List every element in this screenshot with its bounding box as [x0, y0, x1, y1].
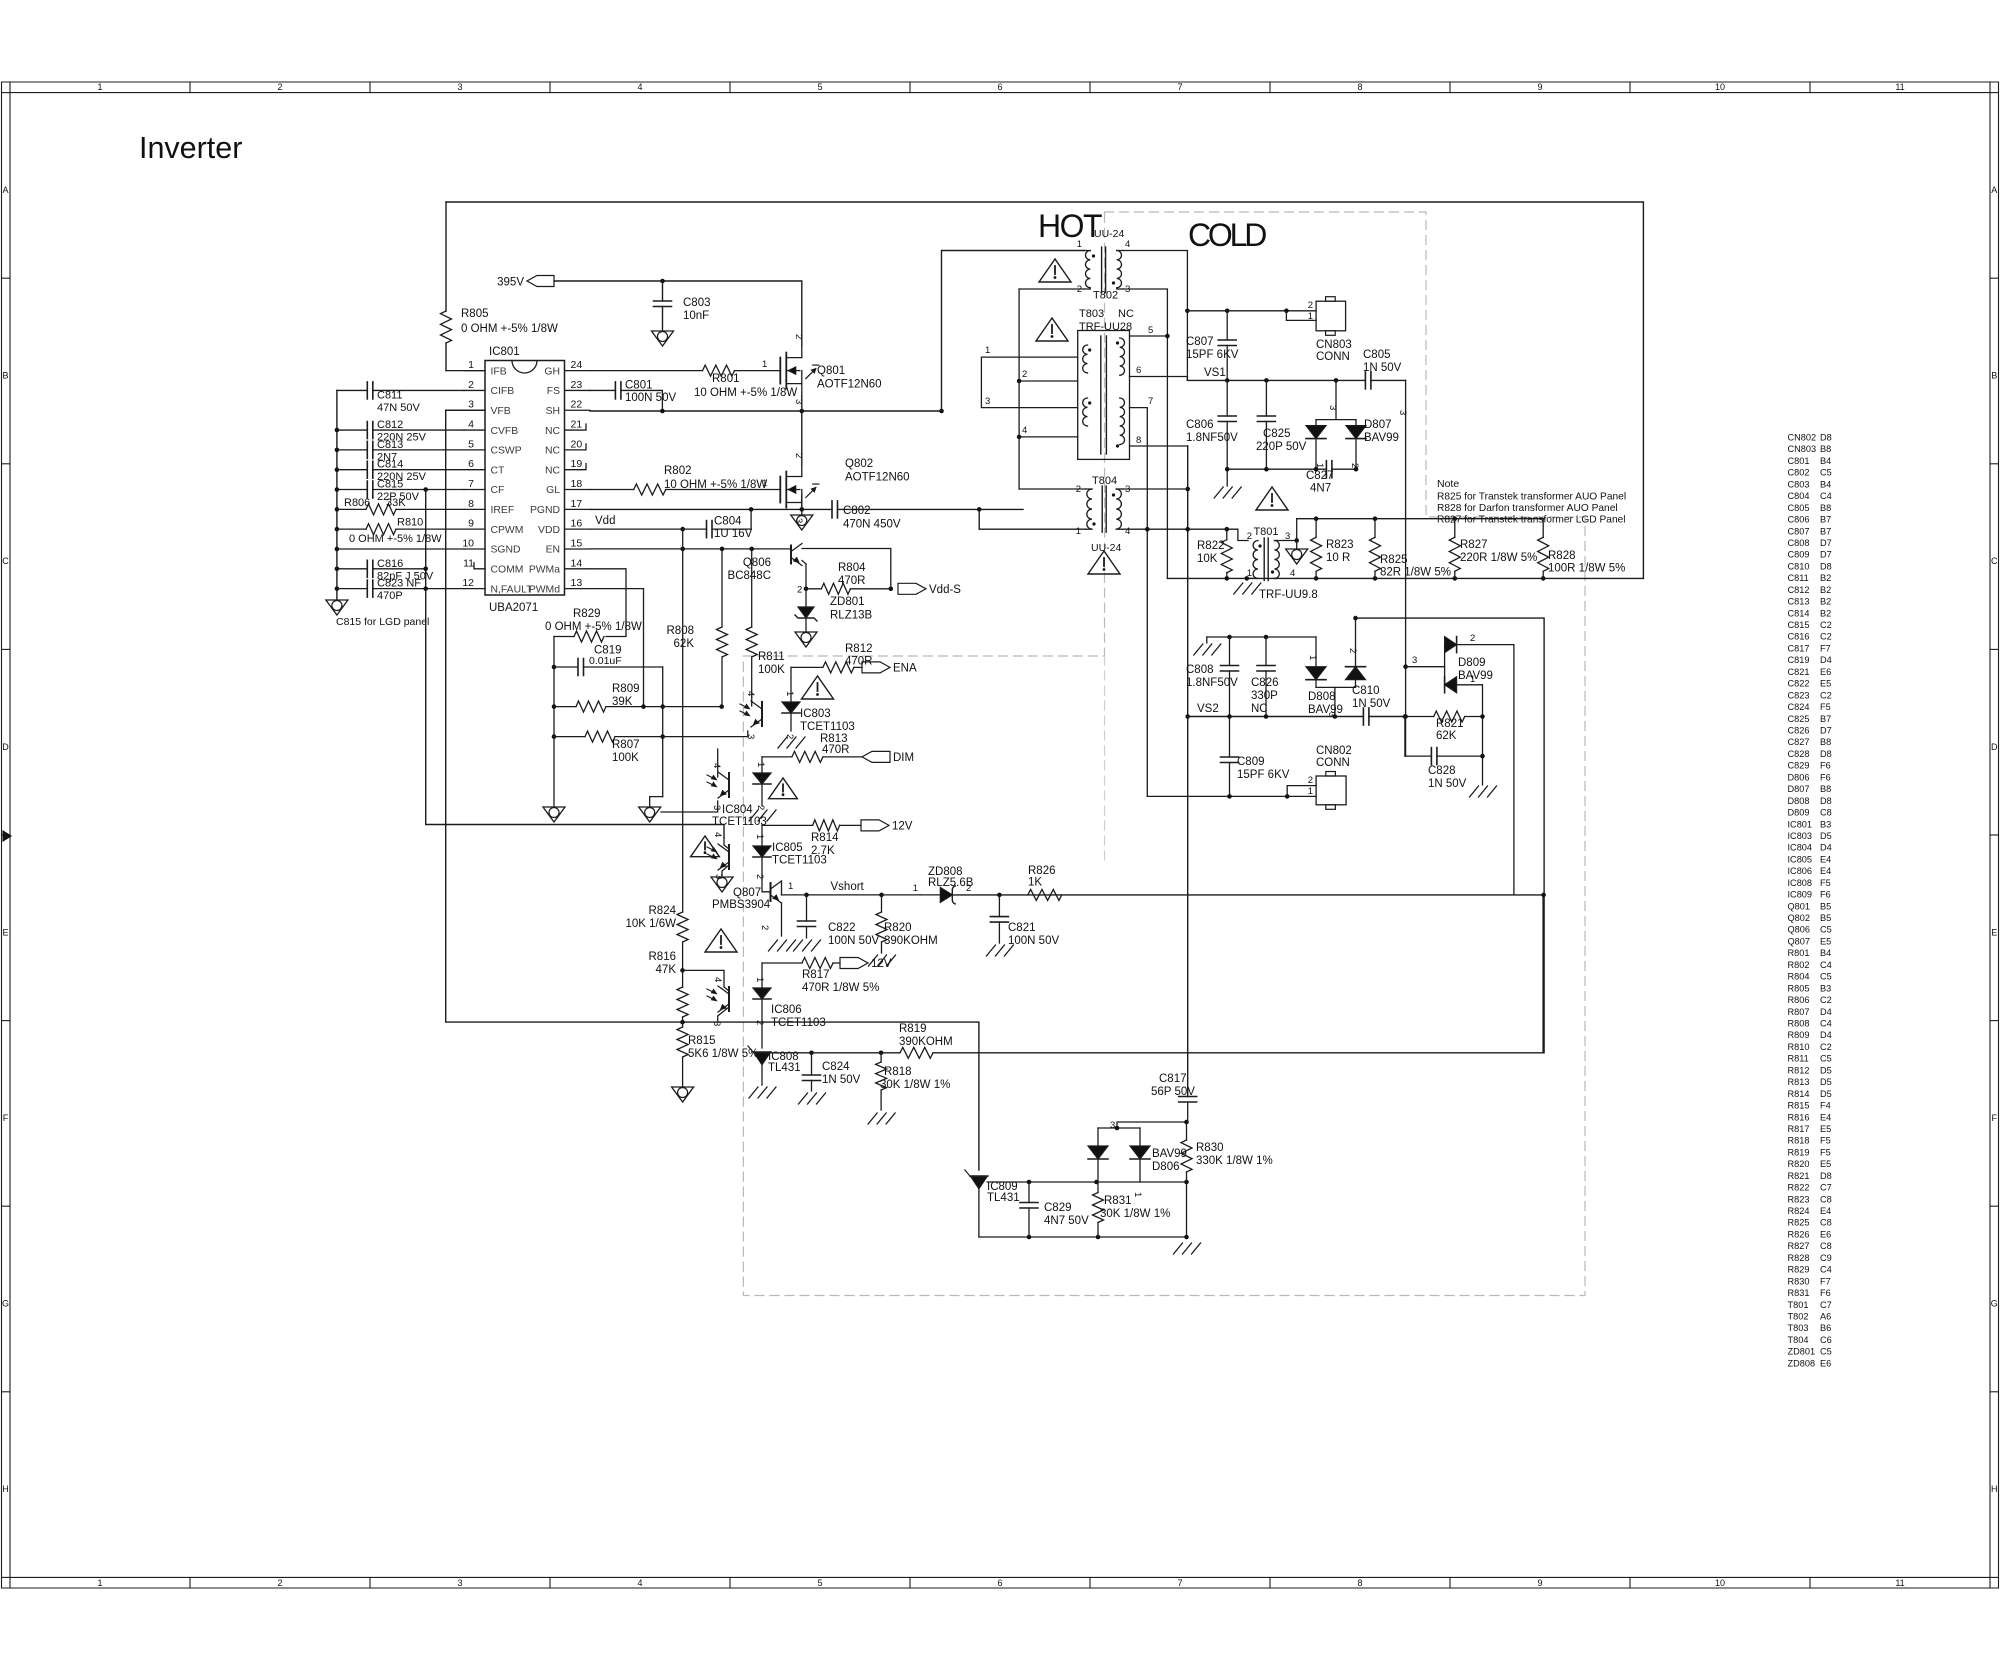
svg-text:4: 4 — [1125, 239, 1130, 250]
svg-text:COLD: COLD — [1188, 217, 1266, 253]
svg-text:C810: C810 — [1352, 685, 1380, 697]
svg-text:C5: C5 — [1820, 468, 1832, 478]
ground R820 — [869, 955, 878, 966]
capacitor C819 — [554, 666, 578, 668]
svg-text:C823: C823 — [1788, 690, 1810, 700]
ground at Q802 source — [791, 515, 813, 530]
wire resistor bank bottom rail — [1167, 577, 1643, 579]
svg-text:D808: D808 — [1308, 691, 1336, 703]
wire R829/C819/R809/R807 common — [553, 637, 555, 807]
svg-text:C7: C7 — [1820, 1300, 1832, 1310]
svg-text:2: 2 — [793, 334, 804, 339]
svg-text:1: 1 — [985, 345, 990, 356]
wire IC809 bottom line — [979, 1236, 1187, 1238]
optocoupler IC805 — [728, 845, 730, 869]
svg-text:C827: C827 — [1788, 737, 1810, 747]
svg-text:330P: 330P — [1251, 690, 1278, 702]
wire Vshort node with zener ZD808 — [782, 894, 921, 896]
svg-text:R812: R812 — [845, 643, 873, 655]
svg-text:22: 22 — [571, 399, 583, 411]
svg-text:4: 4 — [1022, 425, 1027, 436]
svg-text:D5: D5 — [1820, 1077, 1832, 1087]
svg-text:G: G — [2, 1299, 9, 1309]
transistor Q807 driver Q806 — [790, 546, 792, 564]
svg-text:R828: R828 — [1548, 550, 1576, 562]
svg-text:390KOHM: 390KOHM — [884, 935, 938, 947]
svg-text:F: F — [3, 1113, 9, 1123]
svg-text:1: 1 — [1076, 526, 1081, 537]
svg-text:470R: 470R — [845, 656, 873, 668]
svg-text:NC: NC — [1251, 703, 1268, 715]
svg-text:C813: C813 — [377, 439, 403, 451]
svg-text:470R: 470R — [822, 744, 850, 756]
warning triangle near IC803 — [802, 676, 834, 699]
svg-text:11: 11 — [463, 557, 474, 569]
capacitor C803 — [662, 281, 664, 301]
op-amp U1 controller IC801 UBA2071 box and pins — [485, 361, 565, 596]
svg-text:C8: C8 — [1820, 1194, 1832, 1204]
svg-text:R801: R801 — [1788, 948, 1810, 958]
svg-text:14: 14 — [571, 557, 583, 569]
svg-text:C824: C824 — [822, 1061, 850, 1073]
capacitor C817 — [1179, 1096, 1197, 1098]
svg-text:CT: CT — [491, 465, 506, 476]
svg-text:1N 50V: 1N 50V — [1352, 698, 1391, 710]
svg-text:B8: B8 — [1820, 503, 1831, 513]
svg-text:7: 7 — [1177, 1578, 1182, 1588]
svg-text:220P 50V: 220P 50V — [1256, 441, 1307, 453]
svg-text:1: 1 — [1470, 674, 1475, 685]
svg-text:VFB: VFB — [491, 406, 511, 417]
ground at bottom of capacitor bus — [326, 600, 348, 615]
wire T801 pin3 node — [1296, 519, 1298, 541]
svg-text:1.8NF50V: 1.8NF50V — [1186, 677, 1238, 689]
svg-text:0 OHM +-5% 1/8W: 0 OHM +-5% 1/8W — [349, 533, 442, 545]
wire PWMd vertical — [590, 589, 644, 707]
svg-text:C816: C816 — [1788, 632, 1810, 642]
svg-text:IC808: IC808 — [1788, 878, 1813, 888]
resistor R826 — [1028, 889, 1062, 900]
svg-text:10 R: 10 R — [1326, 552, 1350, 564]
svg-text:C813: C813 — [1788, 597, 1810, 607]
svg-text:D806: D806 — [1152, 1161, 1180, 1173]
warning triangle near IC805 — [691, 836, 720, 857]
svg-text:B2: B2 — [1820, 597, 1831, 607]
svg-text:10 OHM +-5% 1/8W: 10 OHM +-5% 1/8W — [694, 387, 797, 399]
svg-text:R829: R829 — [1788, 1265, 1810, 1275]
svg-text:IC803: IC803 — [800, 708, 831, 720]
svg-text:TRF-UU9.8: TRF-UU9.8 — [1259, 589, 1318, 601]
optocoupler IC803 — [761, 702, 763, 726]
svg-text:COMM: COMM — [491, 565, 524, 576]
svg-text:D4: D4 — [1820, 1007, 1832, 1017]
resistor R813 and DIM flag — [762, 756, 792, 758]
wire feedback line with R819 — [762, 1052, 900, 1054]
svg-text:9: 9 — [468, 518, 474, 530]
svg-text:R804: R804 — [1788, 972, 1810, 982]
svg-text:3: 3 — [1412, 655, 1417, 666]
resistor R809 — [554, 706, 576, 708]
capacitor C828 — [1404, 717, 1406, 757]
svg-text:C810: C810 — [1788, 561, 1810, 571]
svg-text:390KOHM: 390KOHM — [899, 1036, 953, 1048]
resistor R818 — [880, 1053, 882, 1062]
transformer T802 — [1084, 250, 1090, 252]
svg-text:2: 2 — [1349, 463, 1360, 468]
svg-text:1: 1 — [755, 762, 766, 767]
svg-text:R831: R831 — [1104, 1195, 1132, 1207]
wire T802/T804 pin2 vertical — [1018, 289, 1020, 489]
svg-text:56P 50V: 56P 50V — [1151, 1086, 1195, 1098]
svg-text:B2: B2 — [1820, 608, 1831, 618]
wire C808 top line — [1207, 636, 1316, 638]
svg-text:R831: R831 — [1788, 1288, 1810, 1298]
resistor R811 — [751, 549, 753, 627]
svg-text:GH: GH — [544, 366, 560, 377]
svg-text:ZD801: ZD801 — [1788, 1347, 1816, 1357]
svg-text:E6: E6 — [1820, 667, 1831, 677]
svg-text:R808: R808 — [1788, 1019, 1810, 1029]
svg-text:5: 5 — [1148, 325, 1153, 336]
svg-text:F7: F7 — [1820, 1276, 1831, 1286]
resistor R804 — [806, 588, 821, 590]
capacitor C809 — [1229, 717, 1231, 758]
svg-text:3: 3 — [1285, 531, 1290, 542]
svg-text:17: 17 — [571, 498, 583, 510]
svg-text:D7: D7 — [1820, 550, 1832, 560]
svg-text:AOTF12N60: AOTF12N60 — [817, 379, 882, 391]
svg-text:D5: D5 — [1820, 831, 1832, 841]
capacitor C805 — [1364, 372, 1366, 389]
svg-text:NC: NC — [545, 465, 561, 476]
svg-text:C807: C807 — [1788, 526, 1810, 536]
svg-text:PGND: PGND — [530, 505, 560, 516]
wire PWMa — [590, 569, 626, 637]
svg-text:2: 2 — [966, 883, 971, 894]
svg-text:C: C — [1991, 556, 1998, 566]
capacitor C806 — [1226, 380, 1228, 416]
svg-text:TRF-UU28: TRF-UU28 — [1079, 321, 1132, 333]
svg-text:CONN: CONN — [1316, 351, 1350, 363]
svg-text:1: 1 — [754, 977, 765, 982]
svg-text:30K 1/8W 1%: 30K 1/8W 1% — [880, 1079, 950, 1091]
wire left edge into R805 — [445, 202, 447, 311]
svg-text:F4: F4 — [1820, 1101, 1831, 1111]
svg-text:62K: 62K — [674, 638, 695, 650]
svg-text:BAV99: BAV99 — [1458, 670, 1493, 682]
svg-text:BC848C: BC848C — [728, 570, 771, 582]
svg-text:B4: B4 — [1820, 456, 1831, 466]
resistor R817 and second 12V flag — [762, 962, 802, 964]
svg-text:B: B — [1991, 371, 1997, 381]
svg-text:C815 for LGD panel: C815 for LGD panel — [336, 616, 429, 628]
ground below ZD801 — [795, 632, 817, 647]
svg-text:Q801: Q801 — [817, 365, 845, 377]
capacitor C822 — [806, 895, 808, 921]
resistor R810 — [337, 528, 366, 530]
svg-text:F5: F5 — [1820, 702, 1831, 712]
svg-text:UU-24: UU-24 — [1091, 542, 1122, 554]
svg-text:CVFB: CVFB — [491, 426, 519, 437]
resistor R808 — [721, 549, 723, 627]
svg-text:VDD: VDD — [538, 525, 560, 536]
svg-text:24: 24 — [571, 359, 583, 371]
svg-text:1: 1 — [1077, 239, 1082, 250]
wire VFB feedback vertical down to IC806 row — [446, 410, 979, 1170]
svg-text:CF: CF — [491, 485, 505, 496]
svg-text:GL: GL — [546, 485, 560, 496]
wire SH half-bridge node — [590, 410, 942, 412]
wire CN803 feed — [1187, 310, 1316, 312]
capacitor C821 — [998, 895, 1000, 917]
resistor R831 — [1097, 1182, 1099, 1193]
svg-text:E5: E5 — [1820, 679, 1831, 689]
svg-text:B3: B3 — [1820, 983, 1831, 993]
svg-text:10: 10 — [462, 537, 474, 549]
svg-text:4N7: 4N7 — [1310, 483, 1331, 495]
svg-text:1: 1 — [97, 82, 102, 92]
svg-text:C4: C4 — [1820, 491, 1832, 501]
svg-text:R816: R816 — [1788, 1112, 1810, 1122]
svg-text:C5: C5 — [1820, 972, 1832, 982]
svg-text:B3: B3 — [1820, 819, 1831, 829]
svg-text:D806: D806 — [1788, 772, 1810, 782]
svg-text:1: 1 — [1308, 311, 1313, 322]
capacitor C804 — [706, 521, 708, 538]
wire C805 chain vertical — [1405, 380, 1407, 756]
svg-text:C805: C805 — [1788, 503, 1810, 513]
svg-text:5: 5 — [817, 82, 822, 92]
wire long secondary vertical — [1130, 445, 1188, 447]
svg-text:D5: D5 — [1820, 1089, 1832, 1099]
svg-text:2: 2 — [754, 1020, 765, 1025]
capacitor C827 — [1227, 468, 1326, 470]
svg-text:D5: D5 — [1820, 1065, 1832, 1075]
svg-text:R815: R815 — [688, 1035, 716, 1047]
svg-text:PMBS3904: PMBS3904 — [712, 899, 771, 911]
svg-text:SH: SH — [546, 406, 560, 417]
svg-text:C823 NF: C823 NF — [377, 578, 421, 590]
svg-text:C822: C822 — [1788, 679, 1810, 689]
svg-text:D807: D807 — [1788, 784, 1810, 794]
svg-text:2: 2 — [793, 453, 804, 458]
shunt regulator IC809 TL431 — [970, 1175, 988, 1177]
wire T801 primary feed — [1227, 529, 1248, 540]
svg-text:B8: B8 — [1820, 737, 1831, 747]
svg-text:R819: R819 — [1788, 1147, 1810, 1157]
svg-text:F6: F6 — [1820, 1288, 1831, 1298]
svg-text:Q801: Q801 — [1788, 901, 1810, 911]
svg-text:4: 4 — [712, 977, 723, 982]
wire left capacitor bus — [336, 390, 338, 599]
svg-text:C8: C8 — [1820, 1241, 1832, 1251]
svg-text:R811: R811 — [758, 651, 785, 663]
svg-text:C2: C2 — [1820, 995, 1832, 1005]
ground IC803 LED — [778, 737, 787, 748]
ground C824 — [799, 1093, 808, 1104]
warning triangle above T801 — [1256, 487, 1288, 510]
svg-text:3: 3 — [457, 82, 462, 92]
svg-text:6: 6 — [997, 82, 1002, 92]
svg-text:C805: C805 — [1363, 349, 1391, 361]
svg-text:C5: C5 — [1820, 1054, 1832, 1064]
svg-text:15: 15 — [571, 537, 583, 549]
svg-text:R807: R807 — [1788, 1007, 1810, 1017]
svg-text:C824: C824 — [1788, 702, 1810, 712]
svg-text:R826: R826 — [1788, 1229, 1810, 1239]
svg-text:100N 50V: 100N 50V — [1008, 935, 1059, 947]
svg-text:D807: D807 — [1364, 419, 1392, 431]
dashed hot/cold isolation barrier — [743, 212, 1585, 1296]
svg-text:IC801: IC801 — [1788, 819, 1813, 829]
svg-text:D8: D8 — [1820, 433, 1832, 443]
svg-text:E4: E4 — [1820, 866, 1831, 876]
svg-text:4: 4 — [745, 691, 756, 696]
svg-text:IFB: IFB — [491, 366, 507, 377]
wire VDD — [590, 528, 707, 530]
svg-text:F5: F5 — [1820, 1147, 1831, 1157]
svg-text:C5: C5 — [1820, 925, 1832, 935]
wire GL gate drive — [590, 489, 634, 491]
svg-text:D809: D809 — [1788, 808, 1810, 818]
svg-text:IC801: IC801 — [489, 346, 520, 358]
svg-text:3: 3 — [711, 1021, 722, 1026]
svg-text:C821: C821 — [1008, 922, 1036, 934]
svg-text:100K: 100K — [758, 664, 785, 676]
svg-text:5: 5 — [468, 438, 474, 450]
svg-text:B8: B8 — [1820, 444, 1831, 454]
svg-text:82R 1/8W 5%: 82R 1/8W 5% — [1380, 567, 1451, 579]
svg-text:E: E — [2, 927, 8, 937]
svg-text:H: H — [1991, 1484, 1998, 1494]
svg-text:C828: C828 — [1788, 749, 1810, 759]
svg-text:NC: NC — [545, 446, 561, 457]
svg-text:R825 for Transtek transformer: R825 for Transtek transformer AUO Panel — [1437, 492, 1626, 503]
svg-text:E4: E4 — [1820, 854, 1831, 864]
capacitor C826 — [1265, 637, 1267, 666]
svg-text:Q807: Q807 — [1788, 936, 1810, 946]
transformer T804 — [1086, 488, 1092, 490]
wire PGND power ground rail — [590, 508, 832, 510]
svg-text:Q802: Q802 — [845, 458, 873, 470]
svg-text:F: F — [1991, 1113, 1997, 1123]
warning triangle below T804 — [1088, 551, 1120, 574]
svg-text:ENA: ENA — [893, 662, 917, 674]
svg-text:R814: R814 — [811, 832, 839, 844]
svg-text:CN802: CN802 — [1316, 745, 1352, 757]
wire VS2 — [1188, 716, 1364, 718]
svg-text:H: H — [2, 1484, 9, 1494]
transformer T801 — [1253, 541, 1258, 579]
transistor Q807 — [770, 883, 772, 901]
ground R815 — [672, 1087, 694, 1102]
svg-text:D7: D7 — [1820, 538, 1832, 548]
svg-text:C814: C814 — [377, 459, 403, 471]
svg-text:10 OHM +-5% 1/8W: 10 OHM +-5% 1/8W — [664, 479, 767, 491]
svg-text:B7: B7 — [1820, 714, 1831, 724]
svg-text:E5: E5 — [1820, 1159, 1831, 1169]
svg-text:3: 3 — [985, 396, 990, 407]
svg-text:F7: F7 — [1820, 643, 1831, 653]
svg-text:3: 3 — [745, 734, 756, 739]
wire cold output box — [1356, 618, 1545, 1053]
svg-text:C803: C803 — [683, 297, 711, 309]
svg-text:C826: C826 — [1788, 726, 1810, 736]
svg-text:CIFB: CIFB — [491, 386, 515, 397]
svg-text:R805: R805 — [1788, 983, 1810, 993]
svg-text:2: 2 — [277, 1578, 282, 1588]
capacitor C802 — [831, 501, 833, 518]
svg-text:R824: R824 — [1788, 1206, 1810, 1216]
svg-text:C809: C809 — [1788, 550, 1810, 560]
svg-text:D8: D8 — [1820, 796, 1832, 806]
svg-text:VS1: VS1 — [1204, 367, 1226, 379]
svg-text:C808: C808 — [1186, 664, 1214, 676]
svg-text:NC: NC — [545, 426, 561, 437]
capacitor C811 — [337, 389, 367, 391]
svg-text:R817: R817 — [802, 969, 830, 981]
svg-text:12V: 12V — [892, 820, 913, 832]
capacitor C808 — [1229, 637, 1231, 666]
ground x650 — [639, 807, 661, 822]
svg-text:7: 7 — [468, 478, 474, 490]
svg-text:R805: R805 — [461, 308, 489, 320]
svg-text:15PF 6KV: 15PF 6KV — [1186, 349, 1239, 361]
svg-text:C2: C2 — [1820, 632, 1832, 642]
svg-text:B5: B5 — [1820, 913, 1831, 923]
svg-text:D4: D4 — [1820, 843, 1832, 853]
svg-text:10nF: 10nF — [683, 310, 709, 322]
svg-text:B5: B5 — [1820, 901, 1831, 911]
resistor R822 — [1226, 529, 1228, 540]
resistor R825 — [1374, 519, 1376, 538]
svg-text:0 OHM +-5% 1/8W: 0 OHM +-5% 1/8W — [461, 323, 558, 335]
svg-text:F6: F6 — [1820, 761, 1831, 771]
svg-text:UBA2071: UBA2071 — [489, 602, 538, 614]
svg-text:R825: R825 — [1380, 554, 1408, 566]
warning triangle left of T803 — [1036, 318, 1068, 341]
svg-text:BAV99: BAV99 — [1364, 432, 1399, 444]
svg-text:10K: 10K — [1197, 553, 1218, 565]
svg-text:E4: E4 — [1820, 1112, 1831, 1122]
svg-text:B7: B7 — [1820, 515, 1831, 525]
svg-text:220R 1/8W 5%: 220R 1/8W 5% — [1460, 552, 1537, 564]
svg-text:FS: FS — [547, 386, 560, 397]
svg-text:R820: R820 — [884, 922, 912, 934]
svg-text:N,FAULT: N,FAULT — [491, 584, 534, 595]
svg-text:470R: 470R — [838, 575, 866, 587]
svg-text:9: 9 — [1537, 82, 1542, 92]
svg-text:1: 1 — [913, 883, 918, 894]
svg-text:C829: C829 — [1788, 761, 1810, 771]
svg-text:R809: R809 — [612, 683, 640, 695]
svg-text:IC805: IC805 — [772, 842, 803, 854]
svg-text:5K6 1/8W 5%: 5K6 1/8W 5% — [688, 1048, 758, 1060]
svg-text:R813: R813 — [1788, 1077, 1810, 1087]
svg-text:19: 19 — [571, 458, 583, 470]
svg-text:R830: R830 — [1788, 1276, 1810, 1286]
svg-text:330K 1/8W 1%: 330K 1/8W 1% — [1196, 1155, 1273, 1167]
svg-text:R815: R815 — [1788, 1101, 1810, 1111]
svg-text:R827 for Transtek transformer: R827 for Transtek transformer LGD Panel — [1437, 515, 1626, 526]
svg-text:C8: C8 — [1820, 808, 1832, 818]
svg-text:UU-24: UU-24 — [1094, 228, 1125, 240]
svg-text:7: 7 — [1148, 396, 1153, 407]
svg-text:R801: R801 — [712, 373, 740, 385]
svg-text:C2: C2 — [1820, 1042, 1832, 1052]
svg-text:6: 6 — [1136, 365, 1141, 376]
connector CN803 — [1316, 301, 1346, 331]
